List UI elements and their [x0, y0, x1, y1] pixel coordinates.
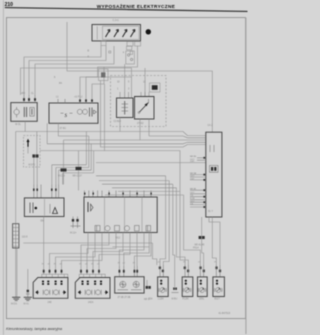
net N2 box B out	[56, 123, 89, 184]
svg-text:M·41: M·41	[24, 304, 30, 306]
svg-text:NR 2B: NR 2B	[190, 189, 197, 191]
H pins	[119, 266, 139, 277]
bus y247	[112, 246, 149, 248]
wire branch to switch pin	[86, 77, 132, 99]
wires E bottom to F pins	[50, 233, 89, 270]
svg-text:25A: 25A	[149, 298, 154, 301]
top box lower pin squares	[101, 41, 141, 46]
net N1 box A out	[16, 121, 206, 184]
svg-text:110.8: 110.8	[22, 237, 28, 239]
ignition arrow symbol	[27, 139, 30, 147]
connector black icon in dashed box	[32, 154, 38, 157]
svg-text:M12: M12	[116, 238, 121, 240]
svg-text:Kierunkowskazy, lampka awaryjn: Kierunkowskazy, lampka awaryjna	[6, 327, 62, 331]
net N4	[101, 81, 206, 148]
wire branch pin L2	[92, 67, 104, 99]
switch module box E	[84, 197, 157, 233]
connector between I and J	[172, 288, 179, 293]
fuse feed wire with fuse	[15, 132, 17, 298]
svg-text:51·Y: 51·Y	[208, 211, 213, 213]
wires E bottom to G pins	[81, 233, 109, 270]
wire U-net under top box	[80, 46, 138, 99]
wire long bus y71 to connector	[67, 22, 212, 132]
connector NR41	[199, 217, 205, 265]
black dot node right of top box	[146, 29, 151, 34]
lamp box I pins	[159, 265, 164, 277]
lamp box K pins	[199, 265, 205, 277]
svg-text:242A: 242A	[88, 301, 94, 304]
tiny labels above F pins	[42, 262, 217, 266]
net N5	[105, 84, 181, 191]
small pin rect above M2	[127, 46, 132, 50]
diagram frame	[6, 18, 245, 319]
wire bus feed relay coil	[124, 64, 126, 98]
svg-text:B11T: B11T	[215, 299, 221, 301]
box B pins	[58, 99, 93, 103]
svg-text:L12M: L12M	[158, 299, 164, 301]
wire box D out bottom	[43, 217, 45, 270]
G pin strip	[79, 274, 105, 277]
svg-text:24D: 24D	[48, 302, 53, 304]
header rule	[5, 8, 248, 12]
connector M12X between D and E	[71, 217, 81, 229]
box D pins	[33, 185, 59, 198]
ground 2 pin marks	[27, 290, 29, 295]
lamp box L pins	[215, 265, 221, 277]
wires E bottom to H pins	[136, 233, 138, 267]
hazard switch box B	[49, 103, 98, 123]
svg-text:Z05L: Z05L	[199, 299, 205, 301]
repeater lamp box L	[213, 277, 225, 297]
rear lamp cluster box G	[75, 278, 110, 299]
svg-text:C.2×1: C.2×1	[113, 19, 120, 22]
wire labels column	[190, 156, 197, 205]
svg-text:N 2B: N 2B	[190, 198, 195, 200]
net bus y140	[64, 139, 206, 141]
wires dashed box to box D pins	[28, 147, 37, 185]
repeater lamp box K	[198, 277, 208, 297]
ground symbol left	[12, 297, 20, 300]
box A pins	[23, 95, 36, 103]
relay pin ticks	[120, 92, 149, 98]
ground symbol 2	[24, 297, 32, 300]
right page-edge line	[245, 18, 247, 334]
right fan wires down to lamps	[96, 176, 166, 265]
net bus y150 left reach	[40, 150, 105, 152]
tall box left stub wires and labels	[190, 157, 206, 208]
front lamp cluster box F	[33, 278, 68, 299]
svg-text:C3 B2×: C3 B2×	[114, 120, 122, 123]
side lamp box J	[182, 277, 193, 297]
svg-text:WYPOSAŻENIE ELEKTRYCZNE: WYPOSAŻENIE ELEKTRYCZNE	[97, 3, 175, 9]
wire bus y68	[21, 68, 132, 98]
connector X bottom wires	[209, 217, 220, 265]
svg-text:+G P L2: +G P L2	[74, 97, 83, 99]
wire into dashed connector	[36, 132, 38, 155]
box E pins top	[84, 191, 152, 198]
svg-text:M.970: M.970	[29, 165, 36, 167]
relay coil sub-box	[117, 98, 134, 118]
lamp box J pins	[184, 265, 190, 277]
svg-text:M BU: M BU	[172, 299, 178, 301]
hazard flasher unit box A	[11, 103, 37, 122]
svg-text:C4·2: C4·2	[208, 125, 214, 127]
wire bus to box A pin3	[35, 46, 114, 95]
svg-text:41-84/7523: 41-84/7523	[219, 313, 231, 315]
relay switch sub-box	[135, 97, 155, 120]
dashed relay box	[111, 76, 167, 127]
net N3b staircase	[63, 151, 94, 185]
fuse (hatched)	[13, 224, 19, 248]
turn signal indicator cluster box (top)	[92, 25, 141, 41]
svg-text:NR.C137: NR.C137	[73, 176, 83, 178]
svg-text:+BB: +BB	[21, 93, 26, 95]
svg-text:27×02: 27×02	[137, 122, 144, 125]
svg-text:37-9G: 37-9G	[60, 128, 67, 130]
svg-text:M.C13: M.C13	[58, 176, 65, 178]
net bus y136 to connector	[149, 136, 206, 138]
small box inside dashed top right	[150, 83, 161, 92]
connector strip X (tall box)	[206, 132, 222, 217]
instrument module box D	[24, 198, 64, 217]
splice S2	[76, 151, 82, 191]
splice S1	[61, 140, 67, 185]
ground wire 2	[27, 269, 29, 297]
svg-text:M.12×: M.12×	[70, 232, 77, 235]
front lamp cluster F pins	[43, 269, 63, 274]
svg-text:P12M: P12M	[182, 299, 188, 301]
small junction box M2	[126, 51, 135, 64]
svg-text:2T 0B 2T 0B: 2T 0B 2T 0B	[118, 297, 131, 299]
wire relay feed 2	[144, 68, 146, 97]
F pin strip	[42, 274, 68, 277]
net N3	[47, 123, 206, 184]
svg-text:NR.41-45: NR.41-45	[195, 245, 206, 247]
left page-edge scan line	[2, 0, 4, 335]
G pins	[80, 269, 100, 274]
dash indicator box H	[115, 277, 144, 293]
side lamp box I	[158, 277, 169, 297]
small junction box M1	[99, 69, 109, 81]
svg-text:P01A: P01A	[193, 247, 199, 250]
left dashed ignition box	[24, 136, 41, 168]
wire bus +BB to box A pin1	[24, 46, 101, 96]
ground wire left	[16, 248, 18, 297]
long bus y162 to connector X	[96, 162, 206, 164]
indicator arrow symbols	[106, 30, 136, 38]
connector NR9 between H and I	[146, 280, 151, 289]
svg-text:M·DS: M·DS	[11, 304, 17, 306]
long bus y243	[23, 243, 157, 265]
wire bus to box A pin2	[29, 46, 106, 96]
svg-text:M·OL: M·OL	[15, 124, 21, 126]
wire relay outputs	[119, 118, 121, 132]
